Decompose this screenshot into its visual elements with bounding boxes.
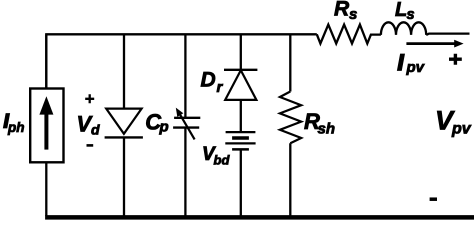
label Vbd [202,144,230,168]
capacitor Cp (variable) [173,34,200,216]
resistor Rsh [280,34,301,216]
label Rs [334,0,357,23]
svg-text:d: d [91,122,100,138]
svg-text:I: I [398,50,405,75]
svg-text:pv: pv [451,121,472,138]
svg-text:s: s [349,6,357,23]
current source Iph [30,34,63,216]
svg-text:bd: bd [214,153,231,168]
terminal plus [449,54,462,65]
svg-text:s: s [407,7,415,23]
wire bottom rail [45,215,474,220]
svg-text:D: D [201,68,216,91]
inductor Ls [381,22,426,35]
svg-text:R: R [334,0,350,20]
label Cp [145,110,168,136]
wire top rail with left riser [46,34,317,88]
label Iph [4,112,25,135]
label Rsh [304,109,335,138]
terminal minus [430,197,437,201]
label Vd with polarity [77,94,101,145]
svg-text:pv: pv [406,59,426,76]
diode Dr (reverse breakdown) [224,34,257,132]
label Dr [201,68,224,95]
label Vpv [435,106,472,138]
svg-text:ph: ph [7,120,25,135]
resistor Rs [317,25,381,44]
svg-text:L: L [395,0,407,21]
wire output top [426,34,469,35]
label Ipv [398,50,426,76]
battery Vbd [225,132,255,216]
arrow Ipv [406,40,463,48]
svg-text:p: p [159,119,169,136]
label Ls [395,0,415,23]
svg-text:sh: sh [318,121,336,138]
diode D (junction diode) [105,34,143,216]
svg-text:r: r [217,79,224,96]
